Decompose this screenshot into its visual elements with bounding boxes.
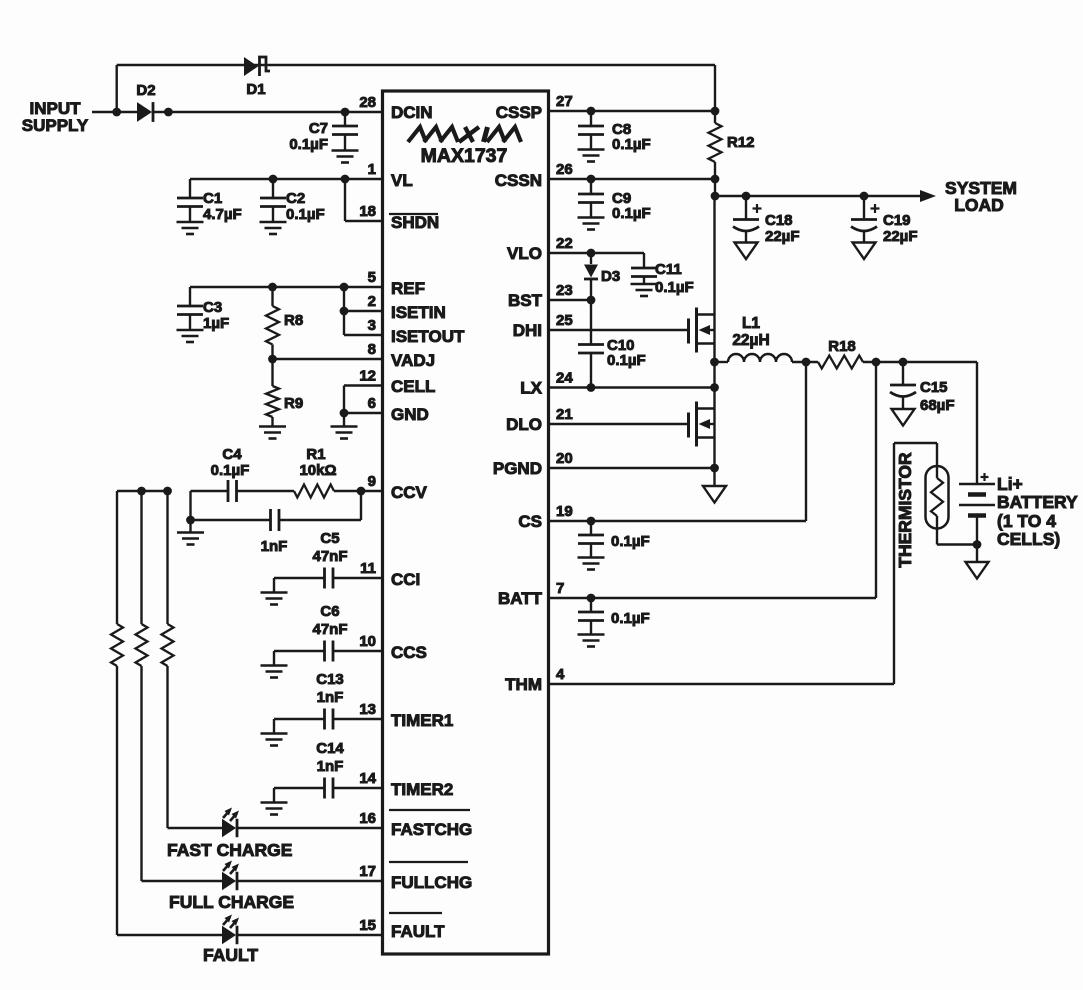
svg-text:D2: D2 [136, 82, 155, 99]
svg-text:C13: C13 [316, 671, 344, 688]
svg-text:C18: C18 [765, 212, 793, 229]
svg-text:14: 14 [359, 770, 376, 787]
svg-text:0.1µF: 0.1µF [607, 352, 646, 369]
svg-text:68µF: 68µF [920, 397, 955, 414]
svg-text:19: 19 [556, 503, 573, 520]
svg-text:1nF: 1nF [317, 758, 344, 775]
svg-text:L1: L1 [742, 315, 760, 332]
svg-text:20: 20 [556, 450, 573, 467]
svg-text:DHI: DHI [513, 321, 542, 340]
svg-text:7: 7 [556, 580, 564, 597]
svg-text:LOAD: LOAD [954, 195, 1004, 215]
svg-text:TIMER2: TIMER2 [391, 780, 453, 799]
svg-text:CCV: CCV [391, 483, 428, 502]
svg-text:22: 22 [556, 235, 573, 252]
svg-text:LX: LX [520, 379, 542, 398]
svg-text:11: 11 [360, 560, 376, 577]
svg-text:GND: GND [391, 405, 429, 424]
svg-text:3: 3 [368, 317, 376, 334]
svg-text:FULL CHARGE: FULL CHARGE [169, 892, 294, 912]
svg-text:4.7µF: 4.7µF [203, 206, 242, 223]
svg-text:4: 4 [556, 666, 565, 683]
svg-text:0.1µF: 0.1µF [289, 136, 328, 153]
svg-text:R18: R18 [828, 338, 856, 355]
svg-text:FAST CHARGE: FAST CHARGE [167, 840, 292, 860]
svg-text:10kΩ: 10kΩ [299, 462, 336, 479]
svg-text:C7: C7 [309, 120, 328, 137]
svg-text:C2: C2 [286, 190, 305, 207]
svg-text:REF: REF [391, 279, 425, 298]
svg-text:(1 TO 4: (1 TO 4 [997, 511, 1056, 531]
svg-text:26: 26 [556, 161, 573, 178]
svg-text:CSSN: CSSN [495, 171, 542, 190]
svg-text:1nF: 1nF [261, 538, 288, 555]
svg-text:C5: C5 [320, 530, 339, 547]
svg-text:C4: C4 [222, 446, 242, 463]
svg-text:9: 9 [368, 473, 376, 490]
svg-text:CELL: CELL [391, 377, 435, 396]
svg-text:22µF: 22µF [883, 228, 918, 245]
svg-text:D1: D1 [246, 81, 265, 98]
svg-text:28: 28 [359, 94, 376, 111]
svg-text:24: 24 [556, 370, 573, 387]
svg-text:THM: THM [505, 675, 542, 694]
svg-text:C14: C14 [316, 740, 344, 757]
svg-text:TIMER1: TIMER1 [391, 711, 453, 730]
svg-text:23: 23 [556, 282, 573, 299]
svg-text:CCI: CCI [391, 570, 420, 589]
svg-text:15: 15 [359, 917, 376, 934]
svg-text:47nF: 47nF [312, 621, 347, 638]
svg-text:Li+: Li+ [997, 474, 1023, 494]
svg-text:PGND: PGND [493, 459, 542, 478]
svg-text:25: 25 [556, 312, 573, 329]
svg-text:1nF: 1nF [317, 689, 344, 706]
svg-text:VADJ: VADJ [391, 351, 435, 370]
svg-text:SUPPLY: SUPPLY [22, 116, 89, 135]
svg-text:13: 13 [359, 701, 376, 718]
svg-text:VL: VL [391, 171, 413, 190]
svg-text:THERMISTOR: THERMISTOR [895, 452, 915, 568]
svg-text:0.1µF: 0.1µF [655, 279, 694, 296]
svg-text:C3: C3 [203, 299, 222, 316]
svg-text:ISETIN: ISETIN [391, 303, 446, 322]
svg-text:0.1µF: 0.1µF [611, 533, 650, 550]
svg-text:R12: R12 [727, 134, 755, 151]
svg-text:C15: C15 [920, 379, 948, 396]
svg-text:27: 27 [556, 93, 573, 110]
svg-text:R1: R1 [306, 446, 325, 463]
svg-text:8: 8 [368, 341, 376, 358]
svg-text:0.1µF: 0.1µF [286, 206, 325, 223]
svg-text:FULLCHG: FULLCHG [391, 873, 472, 892]
svg-text:1µF: 1µF [203, 315, 229, 332]
svg-text:VLO: VLO [507, 244, 542, 263]
svg-text:17: 17 [359, 863, 376, 880]
svg-text:C11: C11 [655, 261, 682, 278]
svg-text:47nF: 47nF [312, 548, 347, 565]
svg-text:CELLS): CELLS) [997, 529, 1060, 549]
svg-text:BATT: BATT [498, 589, 543, 608]
svg-text:16: 16 [359, 810, 376, 827]
svg-text:BST: BST [508, 291, 543, 310]
svg-text:C19: C19 [883, 212, 911, 229]
svg-text:DCIN: DCIN [391, 103, 433, 122]
svg-text:5: 5 [368, 269, 376, 286]
svg-text:ISETOUT: ISETOUT [391, 327, 465, 346]
svg-text:0.1µF: 0.1µF [612, 136, 651, 153]
svg-text:2: 2 [368, 293, 376, 310]
svg-text:CSSP: CSSP [496, 103, 542, 122]
svg-text:22µF: 22µF [765, 228, 800, 245]
svg-text:21: 21 [556, 406, 573, 423]
svg-text:MAX1737: MAX1737 [421, 145, 508, 167]
svg-text:0.1µF: 0.1µF [611, 610, 650, 627]
svg-text:FAULT: FAULT [391, 922, 445, 941]
svg-text:C6: C6 [320, 603, 339, 620]
svg-text:CCS: CCS [391, 643, 427, 662]
svg-text:1: 1 [368, 161, 376, 178]
svg-text:C1: C1 [203, 190, 222, 207]
svg-text:FASTCHG: FASTCHG [391, 820, 472, 839]
svg-text:BATTERY: BATTERY [997, 492, 1078, 512]
svg-text:DLO: DLO [506, 415, 542, 434]
svg-text:R8: R8 [284, 312, 303, 329]
svg-text:6: 6 [368, 395, 376, 412]
svg-text:SHDN: SHDN [391, 213, 439, 232]
svg-text:0.1µF: 0.1µF [211, 462, 250, 479]
svg-text:0.1µF: 0.1µF [612, 205, 651, 222]
svg-text:D3: D3 [601, 268, 620, 285]
svg-text:22µH: 22µH [732, 332, 769, 349]
svg-text:10: 10 [359, 633, 376, 650]
svg-text:FAULT: FAULT [203, 945, 258, 965]
svg-text:R9: R9 [284, 395, 303, 412]
svg-text:CS: CS [518, 512, 542, 531]
svg-text:12: 12 [359, 368, 376, 385]
svg-text:18: 18 [359, 203, 376, 220]
